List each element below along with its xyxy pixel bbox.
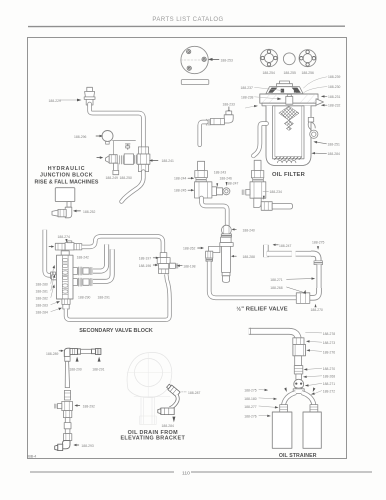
chain1 left label 188-245 <box>174 189 186 193</box>
ball knob 188-296 <box>102 131 113 145</box>
label 188-289 <box>46 352 58 356</box>
leader arrow to 188-229 <box>60 99 82 102</box>
arrow 188-288 <box>231 255 236 257</box>
svg-text:188-290: 188-290 <box>78 296 90 300</box>
drain bottom elbow 188-293 <box>55 441 70 451</box>
svg-text:188-250: 188-250 <box>120 176 132 180</box>
swan neck pipe from tee <box>122 172 144 202</box>
block outlet stem <box>67 202 71 208</box>
svg-text:188-271: 188-271 <box>270 278 282 282</box>
arrow to ball <box>96 135 103 138</box>
label 188-255 <box>284 71 296 75</box>
svg-text:188-270: 188-270 <box>323 367 335 371</box>
label 188-229 <box>49 99 61 103</box>
label 188-241 <box>162 159 174 163</box>
drain tee 188-292 <box>55 401 73 410</box>
svb valve block body <box>57 251 74 299</box>
header rule <box>28 25 345 27</box>
element inner wall <box>275 106 302 157</box>
leader arrow <box>303 376 322 378</box>
drain hex below tee <box>63 411 71 418</box>
arrow 188-268 <box>287 287 307 294</box>
svg-text:PARTS LIST CATALOG: PARTS LIST CATALOG <box>152 17 223 23</box>
svg-text:188-246: 188-246 <box>220 176 232 180</box>
elbow fitting 188-233 <box>206 111 233 125</box>
label 188-284 <box>328 152 340 156</box>
footer rule right <box>191 471 372 473</box>
strainer sleeve <box>293 344 306 355</box>
svb left port <box>52 275 57 280</box>
svg-text:188-296: 188-296 <box>74 135 86 139</box>
svg-text:188-283: 188-283 <box>36 303 48 307</box>
right L elbow top <box>311 254 318 261</box>
svg-text:188-230: 188-230 <box>328 85 340 89</box>
arrow 188-197 <box>153 257 159 259</box>
leader 188-280 <box>51 265 55 284</box>
svg-text:188-278: 188-278 <box>323 332 335 336</box>
arrow <box>259 389 268 391</box>
down dart 188-284 <box>172 417 175 423</box>
svg-text:188-256: 188-256 <box>302 71 314 75</box>
svg-text:IBB-4: IBB-4 <box>28 455 37 459</box>
svg-text:188-290: 188-290 <box>69 367 81 371</box>
page frame <box>28 38 347 459</box>
leader 188-287 <box>182 391 187 393</box>
leader arrow 188-232 <box>321 104 327 106</box>
label 188-287 <box>188 391 200 395</box>
leader arrow <box>304 368 322 370</box>
svg-text:188-288: 188-288 <box>243 255 255 259</box>
strainer label 188-272 <box>323 390 335 394</box>
svb left L pipe <box>45 230 51 276</box>
block elbow fitting 188-252 <box>52 207 72 218</box>
strainer label 188-268 <box>323 375 335 379</box>
svg-text:188-291: 188-291 <box>92 367 104 371</box>
strainer pipe end ring <box>250 328 252 335</box>
drain coupling <box>64 390 70 400</box>
fitting 188-229 <box>84 87 95 105</box>
svg-text:188-238: 188-238 <box>241 96 253 100</box>
leader arrow <box>305 383 322 386</box>
svg-text:188-275: 188-275 <box>244 389 256 393</box>
oil filter head <box>260 94 318 103</box>
lid center marks <box>281 89 284 93</box>
label 188-240 <box>243 228 255 232</box>
strainer pipe mid <box>295 356 302 366</box>
chain2 top tube <box>254 160 261 170</box>
label 188-198 <box>183 265 195 269</box>
svg-text:OIL STRAINER: OIL STRAINER <box>279 453 317 459</box>
chain1 petcock port <box>212 187 230 196</box>
svb bottom U pipe <box>66 274 170 320</box>
svg-text:188-198: 188-198 <box>183 265 195 269</box>
leader arrow <box>306 349 321 351</box>
up dart arrows <box>76 357 79 362</box>
label 188-196 <box>139 264 151 268</box>
chain2 washers <box>253 178 264 182</box>
filter element small diamonds <box>285 120 294 130</box>
svg-text:188-275: 188-275 <box>312 240 324 244</box>
label 188-296 <box>74 135 86 139</box>
arrow <box>259 415 271 417</box>
bleed valve stem <box>125 144 130 149</box>
hex union <box>296 293 310 304</box>
pipe segment B <box>296 251 311 257</box>
svb left label 188-284 <box>36 310 48 314</box>
svg-text:SECONDARY VALVE BLOCK: SECONDARY VALVE BLOCK <box>79 328 153 334</box>
leader arrow <box>306 340 322 342</box>
drain lower tube <box>64 418 71 434</box>
arrow <box>259 406 279 409</box>
svg-text:½" RELIEF VALVE: ½" RELIEF VALVE <box>236 306 287 313</box>
strainer label 188-273 <box>323 341 335 345</box>
dart 188-270 <box>315 304 317 307</box>
svg-text:188-292: 188-292 <box>83 405 95 409</box>
svb top row hex B <box>74 244 82 250</box>
tee union 188-241 <box>137 147 150 172</box>
chain1 top tube <box>198 161 205 170</box>
svg-text:HYDRAULIC: HYDRAULIC <box>48 166 86 172</box>
arrow to tee union <box>149 159 158 162</box>
leader 188-284 <box>51 308 62 312</box>
arrow to 188-252 <box>73 210 81 213</box>
leader <box>306 331 322 334</box>
svg-text:188-276: 188-276 <box>323 350 335 354</box>
strainer left label 188-276b <box>244 414 256 418</box>
label 188-233 <box>223 103 235 107</box>
label 188-247 <box>279 244 291 248</box>
oil filter lid <box>266 87 303 94</box>
svg-text:188-284: 188-284 <box>328 152 340 156</box>
drain bottom coupling <box>63 434 71 441</box>
svg-text:188-251: 188-251 <box>328 142 340 146</box>
svb left label 188-281 <box>36 289 48 293</box>
svg-text:188-233: 188-233 <box>223 103 235 107</box>
chain1 washers <box>196 178 206 182</box>
element bottom seat band <box>275 157 302 160</box>
svg-text:188-268: 188-268 <box>323 375 335 379</box>
svg-text:188-255: 188-255 <box>284 71 296 75</box>
dart arrow 188-274 <box>65 239 67 243</box>
svg-text:188-252: 188-252 <box>83 210 95 214</box>
leader 188-239 <box>304 77 328 88</box>
label 188-251 <box>328 142 340 146</box>
darts at Y joint <box>284 387 287 392</box>
svg-text:188-276: 188-276 <box>244 414 256 418</box>
arrow 188-289 <box>59 350 64 352</box>
leader 188-230 <box>304 87 327 93</box>
dart 188-275 <box>317 246 319 250</box>
svb left label 188-283 <box>36 303 48 307</box>
ghost bracket outline <box>127 352 172 424</box>
strainer label 188-276 <box>323 350 335 354</box>
leader arrow 188-251 <box>313 141 326 144</box>
label 188-290 drain <box>69 367 81 371</box>
footer page code 188-4 <box>28 455 37 459</box>
svg-text:188-249: 188-249 <box>106 176 118 180</box>
pipe from fitting to tee <box>90 104 144 147</box>
strainer bell joint <box>294 379 304 389</box>
strainer hex coupling <box>293 338 304 345</box>
chain2 label 188-234 <box>270 190 282 194</box>
leader 188-283 <box>51 301 60 304</box>
arrow down to elbow 188-233 <box>228 107 231 114</box>
drain top pipe <box>81 349 92 353</box>
svb bottom label 188-291 <box>98 296 110 300</box>
chain1 left label 188-244 <box>174 177 186 181</box>
svg-text:188-262: 188-262 <box>183 247 195 251</box>
drain vertical tube upper <box>65 357 70 388</box>
svb top pipe to tee assembly <box>82 236 163 252</box>
strainer pipe small <box>296 374 302 380</box>
right L down tube <box>317 265 322 290</box>
dart arrow below chain2 <box>263 196 265 200</box>
arrow 188-240 <box>232 228 237 230</box>
drain cock angled fitting 188-287 <box>166 383 180 396</box>
drain cock neck <box>170 395 178 408</box>
drain elbow fitting <box>105 155 118 175</box>
leader arrow 188-238 <box>255 97 282 100</box>
chain1 tee block <box>195 182 212 198</box>
svg-text:188-253: 188-253 <box>221 58 233 62</box>
label 188-252 <box>83 210 95 214</box>
washers <box>134 155 138 163</box>
head step <box>262 103 316 106</box>
arrow 188-245 <box>188 189 194 191</box>
svg-text:188-273: 188-273 <box>323 341 335 345</box>
svg-text:188-229: 188-229 <box>49 99 61 103</box>
svg-text:188-254: 188-254 <box>263 71 275 75</box>
elbow pipe 188-247 <box>263 245 268 257</box>
label 188-275 <box>312 240 324 244</box>
arrow 188-247 <box>273 244 279 246</box>
label 188-288 <box>243 255 255 259</box>
strainer canister left <box>272 412 292 448</box>
svg-text:188-242: 188-242 <box>77 256 89 260</box>
pipe down from elbow 188-233 <box>200 122 207 145</box>
strainer left label 188-277 <box>244 405 256 409</box>
relief valve cap ball 188-240 <box>220 225 233 282</box>
drain pipe end fitting <box>92 348 101 354</box>
seal ring 188-255 <box>283 53 295 65</box>
svb left pipe hex mouth <box>51 272 56 279</box>
svg-text:JUNCTION BLOCK: JUNCTION BLOCK <box>40 173 93 179</box>
lid hatched wedge left <box>268 88 277 93</box>
svg-text:188-237: 188-237 <box>241 86 253 90</box>
svb top row arrow <box>49 245 54 247</box>
svg-text:188-289: 188-289 <box>46 352 58 356</box>
svg-text:188-243: 188-243 <box>214 170 226 174</box>
svb right port row2 <box>73 278 92 286</box>
svg-text:188-268: 188-268 <box>270 286 282 290</box>
leader arrow 188-236 <box>245 105 258 108</box>
center fitting 188-231 <box>286 94 293 104</box>
svb top row hex A <box>55 243 65 250</box>
flange 188-256 <box>299 50 316 67</box>
washers <box>120 156 124 164</box>
svg-text:188-234: 188-234 <box>270 190 282 194</box>
strainer top pipe <box>249 331 299 341</box>
svg-text:188-231: 188-231 <box>328 95 340 99</box>
svb left label 188-280 <box>36 282 48 286</box>
tee assembly feed tube <box>157 253 178 274</box>
drain cock outlet hex <box>158 408 174 415</box>
label 188-237 <box>241 86 253 90</box>
arrow 188-262 <box>198 247 204 249</box>
label 188-262 <box>183 247 195 251</box>
svg-text:188-271: 188-271 <box>323 382 335 386</box>
side fitting with ring <box>308 117 318 138</box>
svb left label 188-282 <box>36 296 48 300</box>
arrow 188-196 <box>153 264 158 266</box>
valve body cylinder <box>124 154 133 164</box>
chain1 label 188-247 <box>226 182 238 186</box>
head outlet nipple <box>316 99 324 105</box>
label 188-268 <box>270 286 282 290</box>
left arm coupling <box>280 405 288 412</box>
leader 188-237 <box>255 87 283 90</box>
leader arrow <box>311 391 322 395</box>
svb bottom labels 188-290 <box>78 296 90 300</box>
label 188-271 <box>270 278 282 282</box>
chain2 bottom elbow <box>254 198 272 210</box>
chain2 outlet tube <box>272 203 292 209</box>
svg-text:188-245: 188-245 <box>174 189 186 193</box>
label 188-254 <box>263 71 275 75</box>
canister bottom spring <box>278 161 296 163</box>
svg-text:188-180: 188-180 <box>244 397 256 401</box>
svg-text:188-241: 188-241 <box>162 159 174 163</box>
strainer coupling mid <box>294 366 303 374</box>
chain1 hex nut <box>195 171 208 178</box>
strainer Y right arm <box>302 393 314 407</box>
canister shell <box>266 106 311 166</box>
svb spool <box>62 255 68 299</box>
hose row2 <box>93 249 112 281</box>
label 188-291 drain <box>92 367 104 371</box>
relief drain pipe to union <box>209 261 296 297</box>
svg-text:188-232: 188-232 <box>328 104 340 108</box>
right L bottom elbow <box>310 288 319 298</box>
svg-text:188-293: 188-293 <box>81 444 93 448</box>
chain1 labels 188-243 <box>214 170 226 174</box>
svg-text:188-247: 188-247 <box>226 182 238 186</box>
arrow to drain elbow <box>97 156 104 159</box>
svg-text:188-287: 188-287 <box>188 391 200 395</box>
svg-text:188-197: 188-197 <box>139 257 151 261</box>
element outer wall <box>273 106 304 159</box>
leader arrow 188-231 <box>321 95 327 97</box>
label 188-238 <box>241 96 253 100</box>
svg-text:188-281: 188-281 <box>36 289 48 293</box>
labels 188-249 188-250 <box>106 176 118 180</box>
chain2 left stub <box>242 189 250 195</box>
leader 188-234 <box>263 191 269 193</box>
arrow 188-271 <box>287 277 316 279</box>
svg-text:188-274: 188-274 <box>58 235 70 239</box>
gasket strip 188-257 <box>181 80 209 85</box>
cover plate 188-253 <box>181 46 210 73</box>
label 188-232 <box>328 104 340 108</box>
label 188-292 <box>83 405 95 409</box>
arrow <box>259 398 277 400</box>
right arm coupling <box>310 405 318 412</box>
leader 188-281 <box>51 275 56 291</box>
label 188-293 <box>81 444 93 448</box>
svg-text:188-244: 188-244 <box>174 177 186 181</box>
svg-text:188-282: 188-282 <box>36 296 48 300</box>
arrow to cover plate <box>208 58 219 61</box>
canister inlet J pipe <box>253 124 266 156</box>
svg-text:188-270: 188-270 <box>311 308 323 312</box>
right L washers <box>314 261 323 265</box>
footer page number 110 <box>182 471 190 477</box>
strainer left label 188-275 <box>244 389 256 393</box>
svg-text:188-196: 188-196 <box>139 264 151 268</box>
svg-text:188-240: 188-240 <box>243 228 255 232</box>
svg-text:188-284: 188-284 <box>36 310 48 314</box>
filter element diamond <box>279 106 299 120</box>
label 188-274 <box>58 235 70 239</box>
svg-text:OIL FILTER: OIL FILTER <box>272 172 306 178</box>
chain1 outlet elbow pipe to relief valve <box>202 198 228 225</box>
label 188-270 <box>311 308 323 312</box>
lid hatched wedge right <box>292 88 301 93</box>
label 188-284 drain <box>162 424 174 428</box>
svb right port row1 <box>73 267 92 275</box>
strainer canister right <box>303 412 321 448</box>
dart arrows to petcock <box>216 182 227 187</box>
strainer Y manifold <box>293 389 304 394</box>
label 188-239 <box>328 75 340 79</box>
label 188-231 <box>328 95 340 99</box>
link rod to tee <box>113 140 136 142</box>
arrow 188-292 <box>74 404 79 406</box>
svg-text:ELEVATING BRACKET: ELEVATING BRACKET <box>120 435 185 441</box>
svg-text:188-280: 188-280 <box>36 282 48 286</box>
drain top elbow <box>64 348 80 356</box>
label 188-253 <box>221 58 233 62</box>
oil filter cap <box>277 81 293 87</box>
svb bottom fitting <box>62 299 70 309</box>
svg-text:RISE & FALL MACHINES: RISE & FALL MACHINES <box>35 179 99 185</box>
chain2 block <box>250 182 266 198</box>
arrow 188-198 <box>177 265 183 267</box>
label 188-242 <box>77 256 89 260</box>
svg-text:188-239: 188-239 <box>328 75 340 79</box>
label 188-256 <box>302 71 314 75</box>
relief valve left elbow fitting <box>206 246 220 261</box>
strainer left label 188-180 <box>244 397 256 401</box>
strainer label 188-278 <box>323 332 335 336</box>
pipe segment A <box>267 251 292 257</box>
junction block body <box>55 188 75 202</box>
strainer label 188-271 <box>323 382 335 386</box>
hose row1 <box>93 244 107 271</box>
arrow 188-244 <box>188 177 194 179</box>
svg-text:188-247: 188-247 <box>279 244 291 248</box>
arrow 188-293 <box>73 444 78 446</box>
chain1 label 188-246 <box>220 176 232 180</box>
leader 188-282 <box>51 285 55 298</box>
strainer Y left arm <box>284 393 296 407</box>
label 188-230 <box>328 85 340 89</box>
flange 188-254 <box>260 49 277 66</box>
leader arrow 188-284 <box>311 152 326 154</box>
chain2 hex nut <box>251 171 263 178</box>
footer rule left <box>30 471 174 473</box>
bell eyes <box>295 383 297 385</box>
